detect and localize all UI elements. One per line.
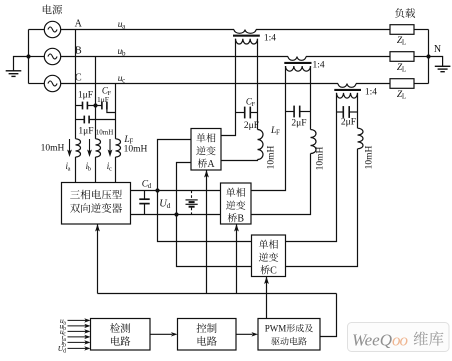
label 1:4 (T2 turns ratio) bbox=[313, 61, 325, 71]
wire bridge A DC+ (to rail dot) bbox=[158, 140, 192, 191]
input arrow ia to detection circuit bbox=[68, 335, 91, 339]
wire drive to bridge B (arrow) bbox=[234, 224, 239, 294]
label Cd bbox=[142, 180, 152, 191]
inductor 10mH (bridge B filter) bbox=[251, 66, 316, 215]
wire DC+ feed to bridge C bbox=[158, 191, 252, 242]
svg-text:2μF: 2μF bbox=[341, 117, 356, 127]
T2 (phase B series transformer) bbox=[284, 57, 311, 72]
svg-text:电源: 电源 bbox=[42, 3, 63, 18]
current arrow ia bbox=[67, 139, 72, 157]
label 10mH (bridge A, vertical) bbox=[267, 145, 277, 169]
svg-text:10mH: 10mH bbox=[267, 145, 277, 169]
capacitor CF 2uF (bridge A) bbox=[236, 107, 258, 119]
AC source phase A bbox=[44, 21, 60, 37]
input arrow ua to detection circuit bbox=[68, 318, 91, 322]
battery (DC storage, dashed) bbox=[186, 191, 198, 215]
svg-text:桥B: 桥B bbox=[227, 210, 244, 225]
svg-text:PWM形成及: PWM形成及 bbox=[265, 322, 314, 335]
label uc (phase C voltage) bbox=[118, 74, 126, 85]
capacitor 2uF (bridge C) bbox=[337, 106, 358, 118]
resistor Z_L phase A bbox=[390, 25, 429, 35]
input arrow ub to detection circuit bbox=[68, 324, 91, 328]
wire PWM output (right edge to bus) bbox=[320, 294, 337, 337]
label 1uF (C_CA) bbox=[78, 126, 93, 136]
inductor 10mH (bridge C filter) bbox=[286, 93, 363, 267]
label ua (detection input) bbox=[60, 316, 67, 327]
wire drive to bridge A (arrow) bbox=[204, 170, 209, 294]
label ZL (Z_L phase C) bbox=[397, 90, 406, 101]
input arrow uc to detection circuit bbox=[68, 329, 91, 333]
svg-text:LF: LF bbox=[270, 126, 280, 137]
svg-text:A: A bbox=[75, 19, 83, 30]
AC source phase B bbox=[44, 48, 60, 64]
label 10mH (bridge B, vertical) bbox=[316, 146, 326, 170]
label 2uF (bridge C) bbox=[341, 117, 356, 127]
svg-text:ZL: ZL bbox=[397, 36, 406, 47]
svg-text:10mH: 10mH bbox=[96, 129, 114, 137]
label 电源 (power source) bbox=[42, 3, 63, 18]
wire phase A bbox=[61, 29, 390, 31]
svg-text:ZL: ZL bbox=[397, 90, 406, 101]
block 检测电路 (detection circuit) bbox=[91, 319, 151, 351]
T1 (phase A series transformer) bbox=[233, 30, 260, 45]
wire phase B bbox=[61, 56, 390, 58]
svg-text:1:4: 1:4 bbox=[264, 33, 276, 43]
resistor Z_L phase B bbox=[390, 52, 429, 62]
svg-text:桥A: 桥A bbox=[197, 155, 215, 170]
wire phase C bbox=[61, 83, 390, 85]
arrow 控制电路 to PWM bbox=[236, 332, 258, 336]
wire phase C dropper bbox=[115, 84, 117, 139]
label 10mH (phase C inductor) bbox=[124, 145, 148, 155]
junction row1 at phase B bbox=[93, 103, 97, 107]
label LF (three-phase filter inductor) bbox=[123, 135, 133, 146]
junction DC- tap (bridge A) bbox=[174, 212, 178, 216]
label Ud (DC voltage) bbox=[159, 199, 170, 211]
capacitor Cd (DC link) bbox=[139, 191, 149, 215]
svg-text:10mH: 10mH bbox=[41, 144, 65, 154]
resistor Z_L phase C bbox=[390, 79, 429, 89]
svg-text:电路: 电路 bbox=[196, 334, 217, 349]
label 1:4 (T3 turns ratio) bbox=[365, 88, 377, 98]
label ua (phase A voltage) bbox=[118, 20, 126, 31]
wire bridge C output 1 (to T3 secondary left) bbox=[286, 93, 337, 242]
label ib (detection input) bbox=[61, 338, 66, 349]
label LF (bridge A filter inductor) bbox=[270, 126, 280, 137]
svg-text:ZL: ZL bbox=[397, 63, 406, 74]
wire phase A dropper bbox=[75, 30, 77, 139]
node label N bbox=[434, 44, 441, 55]
label 10mH (phase B inductor) bbox=[96, 129, 114, 137]
block 三相电压型双向逆变器 (three-phase bidirectional voltage inverter) bbox=[62, 183, 131, 225]
label 1uF (C_AB) bbox=[78, 90, 93, 100]
svg-text:Cd: Cd bbox=[142, 180, 152, 191]
watermark WeeQoo维库 bbox=[348, 323, 450, 352]
svg-text:电路: 电路 bbox=[110, 334, 131, 349]
label 10mH (bridge C, vertical) bbox=[365, 145, 375, 169]
label ia bbox=[65, 161, 70, 173]
label 负载 (load) bbox=[395, 6, 416, 21]
node label A bbox=[75, 19, 83, 30]
wire phase B dropper bbox=[95, 57, 97, 139]
node label C bbox=[75, 73, 82, 84]
label CF (filter cap name) bbox=[102, 85, 112, 97]
AC source phase C bbox=[44, 75, 60, 91]
label 2uF (bridge B) bbox=[291, 119, 306, 129]
svg-text:Ud: Ud bbox=[159, 199, 170, 211]
inductor Lc 10mH (phase C) bbox=[116, 139, 121, 183]
label ia (detection input) bbox=[62, 333, 67, 344]
current arrow ic bbox=[108, 139, 113, 157]
input arrow Ud to detection circuit bbox=[68, 346, 91, 350]
svg-text:1:4: 1:4 bbox=[313, 61, 325, 71]
T3 (phase C series transformer) bbox=[334, 84, 361, 99]
svg-text:10mH: 10mH bbox=[124, 145, 148, 155]
inductor LF 10mH (bridge A filter) bbox=[221, 39, 263, 161]
svg-text:驱动电路: 驱动电路 bbox=[271, 335, 307, 348]
svg-text:10mH: 10mH bbox=[365, 145, 375, 169]
arrow 检测电路 to 控制电路 bbox=[150, 332, 178, 336]
label ZL (Z_L phase B) bbox=[397, 63, 406, 74]
block 单相逆变桥C (single-phase inverter bridge C) bbox=[252, 235, 286, 277]
svg-text:WeeQoo: WeeQoo bbox=[352, 331, 408, 350]
svg-text:1μF: 1μF bbox=[78, 126, 93, 136]
label CF (bridge A cap name) bbox=[246, 96, 256, 108]
capacitor C_BC 1uF (row1 right) bbox=[96, 102, 116, 113]
junction on neutral bus bbox=[26, 54, 30, 58]
label 1uF (C_BC) bbox=[97, 95, 109, 104]
node label B bbox=[75, 46, 82, 57]
wire PWM drive bus bbox=[98, 293, 337, 295]
block 单相逆变桥B (single-phase inverter bridge B) bbox=[221, 183, 252, 225]
capacitor C_CA 1uF (row2) bbox=[76, 116, 116, 124]
block 控制电路 (control circuit) bbox=[178, 319, 237, 351]
svg-text:2μF: 2μF bbox=[291, 119, 306, 129]
svg-text:N: N bbox=[434, 44, 441, 55]
label ZL (Z_L phase A) bbox=[397, 36, 406, 47]
label Ud (detection input) bbox=[58, 344, 66, 355]
capacitor C_AB 1uF (row1 left) bbox=[76, 102, 96, 110]
svg-text:桥C: 桥C bbox=[260, 262, 277, 277]
label 1:4 (T1 turns ratio) bbox=[264, 33, 276, 43]
wire load neutral bbox=[428, 30, 430, 84]
svg-text:1μF: 1μF bbox=[97, 95, 109, 104]
ground (source neutral) bbox=[6, 57, 29, 77]
label 10mH (phase A inductor) bbox=[41, 144, 65, 154]
inductor Lb 10mH (phase B) bbox=[96, 139, 101, 183]
wire DC- feed to bridge C bbox=[177, 215, 252, 267]
label ub (phase B voltage) bbox=[118, 47, 126, 58]
label ub (detection input) bbox=[59, 322, 66, 333]
svg-text:1:4: 1:4 bbox=[365, 88, 377, 98]
svg-text:负载: 负载 bbox=[395, 6, 416, 21]
wire bridge A output 1 (to T1 secondary left) bbox=[221, 39, 236, 136]
block PWM形成及驱动电路 (PWM forming and drive circuit) bbox=[258, 319, 320, 351]
wire drive to bridge C (arrow) bbox=[264, 277, 269, 319]
wire bridge A DC- (to rail dot) bbox=[177, 163, 192, 215]
wire drive to three-phase inverter (arrow) bbox=[95, 224, 100, 294]
input arrow ib to detection circuit bbox=[68, 340, 91, 344]
ground (load neutral) bbox=[429, 57, 451, 72]
wire DC rail - (bottom) bbox=[131, 214, 221, 216]
label ic bbox=[107, 161, 112, 173]
block 单相逆变桥A (single-phase inverter bridge A) bbox=[191, 129, 221, 171]
wire bridge B output 1 (to T2 secondary left) bbox=[251, 66, 286, 191]
inductor La 10mH (phase A) bbox=[76, 139, 81, 183]
label 2uF (bridge A) bbox=[244, 121, 259, 131]
wire: left neutral bus bbox=[29, 30, 45, 84]
capacitor 2uF (bridge B) bbox=[286, 106, 311, 118]
svg-text:维库: 维库 bbox=[413, 328, 444, 350]
label ib bbox=[86, 161, 91, 173]
svg-text:双向逆变器: 双向逆变器 bbox=[70, 201, 123, 216]
wire DC rail + (top) bbox=[131, 190, 221, 192]
current arrow ib bbox=[87, 139, 92, 157]
svg-text:1μF: 1μF bbox=[78, 90, 93, 100]
svg-text:2μF: 2μF bbox=[244, 121, 259, 131]
junction N (neutral) bbox=[426, 54, 430, 58]
svg-text:10mH: 10mH bbox=[316, 146, 326, 170]
label uc (detection input) bbox=[60, 327, 67, 338]
junction DC+ tap (bridge A) bbox=[155, 188, 159, 192]
